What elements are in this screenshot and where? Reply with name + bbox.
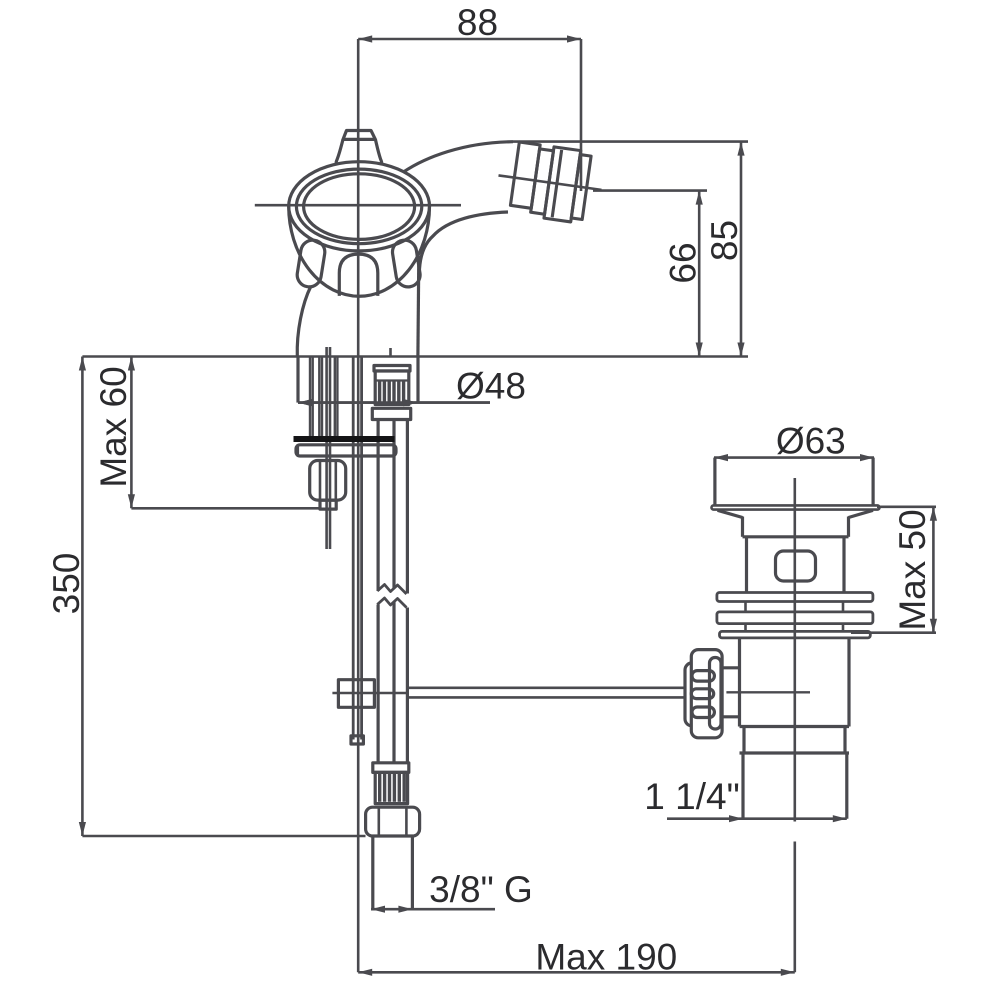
arrows Max 50 (930, 507, 937, 521)
nut slot 3 (692, 707, 714, 718)
extension base plane (82, 355, 748, 358)
flange ring 2 (717, 612, 873, 624)
pop-up rod clamp block (338, 680, 374, 708)
hex nut facet right (405, 807, 408, 836)
svg-text:88: 88 (457, 2, 498, 43)
dimension 3/8 G line (371, 908, 495, 911)
arrows O48 overlay (298, 399, 418, 406)
svg-text:66: 66 (663, 242, 704, 283)
grip scallop right (391, 238, 422, 288)
supply hose thread body (375, 772, 407, 803)
svg-text:Ø48: Ø48 (456, 366, 526, 407)
extension 85 top (513, 140, 748, 143)
arrows 1 1/4 (729, 815, 743, 822)
drain upper body right (842, 537, 845, 593)
aerator main inner edge (552, 150, 561, 217)
nut slot 1 (692, 671, 714, 682)
arrows 85 (737, 142, 744, 156)
dimension O63 line (714, 456, 874, 459)
extension Max 60 bottom (131, 507, 320, 510)
ring wall segment right 1 (842, 602, 845, 612)
faucet base right edge (416, 358, 419, 403)
grip scallop left (295, 238, 326, 288)
supply hose collar bottom (373, 763, 409, 773)
supply hose threads (378, 774, 406, 802)
drain shoulder slant left (718, 510, 743, 517)
handle centerline horizontal (255, 204, 461, 207)
castellated lever nut (685, 650, 722, 738)
drain shoulder slant right (849, 510, 874, 517)
svg-text:350: 350 (46, 553, 87, 615)
extension 88 right (580, 39, 583, 191)
aerator band (531, 149, 554, 214)
ring wall segment left 1 (744, 602, 747, 612)
supply connector inner line (375, 379, 409, 381)
extension Max 50 top (877, 505, 936, 508)
svg-text:Max 60: Max 60 (93, 366, 134, 487)
supply connector top cap (374, 366, 410, 372)
svg-text:Max 50: Max 50 (892, 509, 933, 630)
handle rim ellipse middle (296, 169, 421, 244)
tailpiece wall left (741, 753, 744, 819)
mounting nut facet right (334, 461, 337, 501)
centerline faucet vertical (357, 39, 360, 972)
drain neck shoulder (743, 535, 849, 538)
svg-text:1 1/4": 1 1/4" (644, 776, 739, 817)
handle cap right side (375, 139, 381, 164)
hex nut 3/8 (366, 807, 420, 836)
body right edge (416, 256, 420, 357)
nut left block (685, 663, 705, 726)
dimension O48 overlay line (298, 401, 490, 404)
coupling wall left (742, 727, 745, 754)
aerator assembly (493, 140, 606, 226)
drain flange lip (712, 505, 880, 509)
nut outer block (691, 650, 722, 738)
flange ring 1 (717, 593, 873, 602)
handle cap left side (336, 139, 343, 164)
overflow square hole (776, 551, 816, 581)
nut right capsule (710, 658, 722, 730)
arrows 88 (358, 35, 372, 42)
svg-text:Ø63: Ø63 (776, 421, 846, 462)
supply pipe tick above base (389, 348, 392, 358)
drain flange wall left (713, 458, 716, 505)
ring wall segment right 2 (842, 624, 845, 632)
gasket black bar (294, 436, 395, 442)
pipe break zigzag (377, 585, 406, 595)
ball joint boss top (722, 666, 741, 669)
drain lower body right (847, 638, 850, 727)
coupling line upper (740, 725, 850, 728)
pop-up tube bottom cap (351, 736, 363, 744)
dimension Max 190 line (358, 971, 795, 974)
coupling wall right (843, 727, 846, 754)
coupling line lower (740, 751, 850, 754)
spout top curve (404, 142, 514, 172)
dimension 1 1/4 line (667, 817, 847, 820)
washer plate end tick left (297, 444, 299, 457)
dimension 85 line (740, 142, 743, 357)
body left edge (297, 286, 311, 357)
drain neck wall left (741, 517, 744, 537)
mounting stud (325, 347, 328, 549)
aerator main block (544, 147, 581, 222)
handle cap top face (343, 131, 375, 140)
dimension 66 line (698, 191, 701, 357)
washer plate (296, 445, 396, 456)
supply connector threads (378, 382, 405, 404)
mounting nut collar (320, 500, 336, 509)
aerator end band (571, 155, 591, 220)
extension 66 top (593, 189, 707, 192)
drain lower body left (738, 638, 741, 727)
rod centerline left (332, 692, 407, 694)
mounting nut (310, 461, 346, 501)
aerator axis line (498, 175, 601, 189)
centerline drain vertical (793, 478, 796, 822)
handle rim ellipse outer (289, 162, 430, 251)
drain flange wall right (871, 458, 874, 505)
svg-text:Max 190: Max 190 (535, 937, 677, 978)
arrows O48 (298, 399, 312, 406)
pop-up tube (352, 358, 355, 740)
tailpiece wall right (845, 753, 848, 819)
aerator collar block (510, 142, 540, 208)
tail pipe right (411, 836, 414, 909)
arrows 350 (79, 357, 86, 371)
dimension 350 line (81, 357, 84, 837)
washer plate end tick right (392, 444, 394, 457)
grip scallop middle (339, 254, 378, 296)
handle rim ellipse inner (304, 174, 415, 240)
drain upper body left (745, 537, 748, 593)
mounting nut facet left (319, 461, 322, 501)
arrows O63 (714, 454, 728, 461)
supply connector collar (372, 408, 410, 419)
horizontal rod bottom (407, 696, 685, 699)
tail pipe left (371, 836, 374, 909)
extension 350 bottom (82, 835, 365, 838)
arrows 66 (696, 191, 703, 205)
supply connector body (375, 371, 409, 405)
flange ring 3 (720, 631, 871, 638)
supply pipe walls (377, 421, 380, 592)
dimension O48 line (298, 401, 490, 404)
arrows Max 190 (358, 969, 372, 976)
svg-text:85: 85 (704, 220, 745, 261)
svg-text:3/8" G: 3/8" G (429, 869, 533, 910)
arrows 3/8 G (371, 906, 385, 913)
spout underside curve (419, 212, 508, 277)
nut slot 2 (691, 689, 713, 699)
ring wall segment left 2 (744, 624, 747, 632)
handle grip silhouette (289, 206, 430, 296)
ball joint boss bottom (722, 715, 741, 718)
shank lines (310, 358, 337, 437)
rod centerline right (726, 691, 810, 693)
hex nut facet left (377, 807, 380, 836)
arrows Max 60 (128, 357, 135, 371)
faucet base left edge (296, 358, 299, 403)
extension Max 50 bottom (851, 631, 936, 634)
drain neck wall right (847, 517, 850, 537)
horizontal rod top (407, 686, 685, 689)
dimension Max 60 line (130, 357, 133, 509)
dimension Max 50 line (932, 507, 935, 633)
dimension 88 line (358, 38, 581, 41)
